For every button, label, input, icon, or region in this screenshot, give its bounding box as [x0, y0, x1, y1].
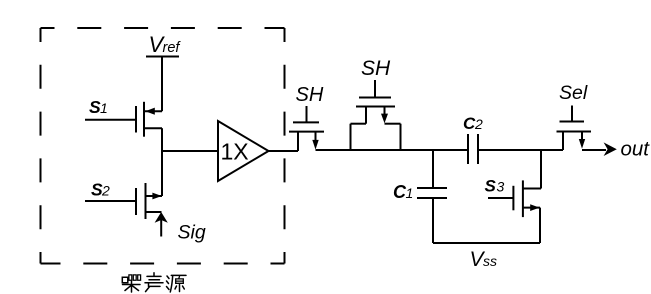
wire Vref rail to S1 drain: [161, 57, 163, 112]
wire branch down to S3 drain: [540, 150, 542, 189]
svg-text:SH: SH: [361, 57, 391, 80]
out arrow: [604, 142, 617, 156]
transistor S3: [513, 180, 541, 243]
label S3: [485, 177, 505, 196]
label Vss: [470, 248, 498, 271]
wire Sel to out: [582, 149, 606, 151]
transistor SH2 (hold clamp): [351, 80, 401, 150]
transistor SH1 (sample/hold pass gate): [289, 106, 324, 151]
capacitor C2: [468, 134, 478, 164]
svg-text:2: 2: [101, 183, 110, 199]
op-amp buffer U1 (1X): [218, 121, 269, 181]
svg-text:2: 2: [474, 116, 483, 132]
transistor S2: [136, 183, 162, 219]
label C1: [393, 182, 413, 202]
svg-text:ref: ref: [163, 40, 182, 56]
wire S3 gate: [488, 197, 513, 199]
wire buffer output to SH1: [269, 150, 299, 152]
Sig input arrow: [155, 212, 168, 237]
wire main SH1 to C2: [316, 149, 469, 151]
svg-text:S: S: [485, 177, 497, 196]
capacitor C1: [417, 150, 447, 243]
svg-text:ss: ss: [483, 253, 497, 269]
label S1: [89, 97, 108, 117]
svg-text:SH: SH: [296, 84, 324, 106]
wire S2 gate: [85, 200, 136, 202]
svg-text:Sig: Sig: [178, 222, 206, 244]
svg-text:1: 1: [100, 100, 108, 116]
label S2: [91, 180, 110, 200]
node junction S1/S2: [161, 128, 163, 196]
svg-text:1: 1: [406, 185, 414, 201]
svg-text:Sel: Sel: [559, 82, 588, 104]
wire C2 to Sel: [478, 149, 563, 151]
dashed box (noise source boundary): [41, 28, 285, 264]
svg-text:out: out: [621, 138, 651, 161]
wire node to buffer input: [162, 150, 218, 152]
label C2: [463, 114, 483, 133]
svg-text:3: 3: [497, 179, 505, 195]
transistor Sel (output select): [557, 106, 592, 151]
svg-text:1X: 1X: [221, 139, 249, 165]
wire S1 gate: [85, 119, 136, 121]
rail Vss bottom wire: [433, 242, 540, 244]
transistor S1: [136, 102, 162, 137]
net Vref supply rail: [146, 56, 179, 58]
label 噪声源 (noise source): [122, 273, 186, 292]
label Vref: [149, 32, 182, 57]
